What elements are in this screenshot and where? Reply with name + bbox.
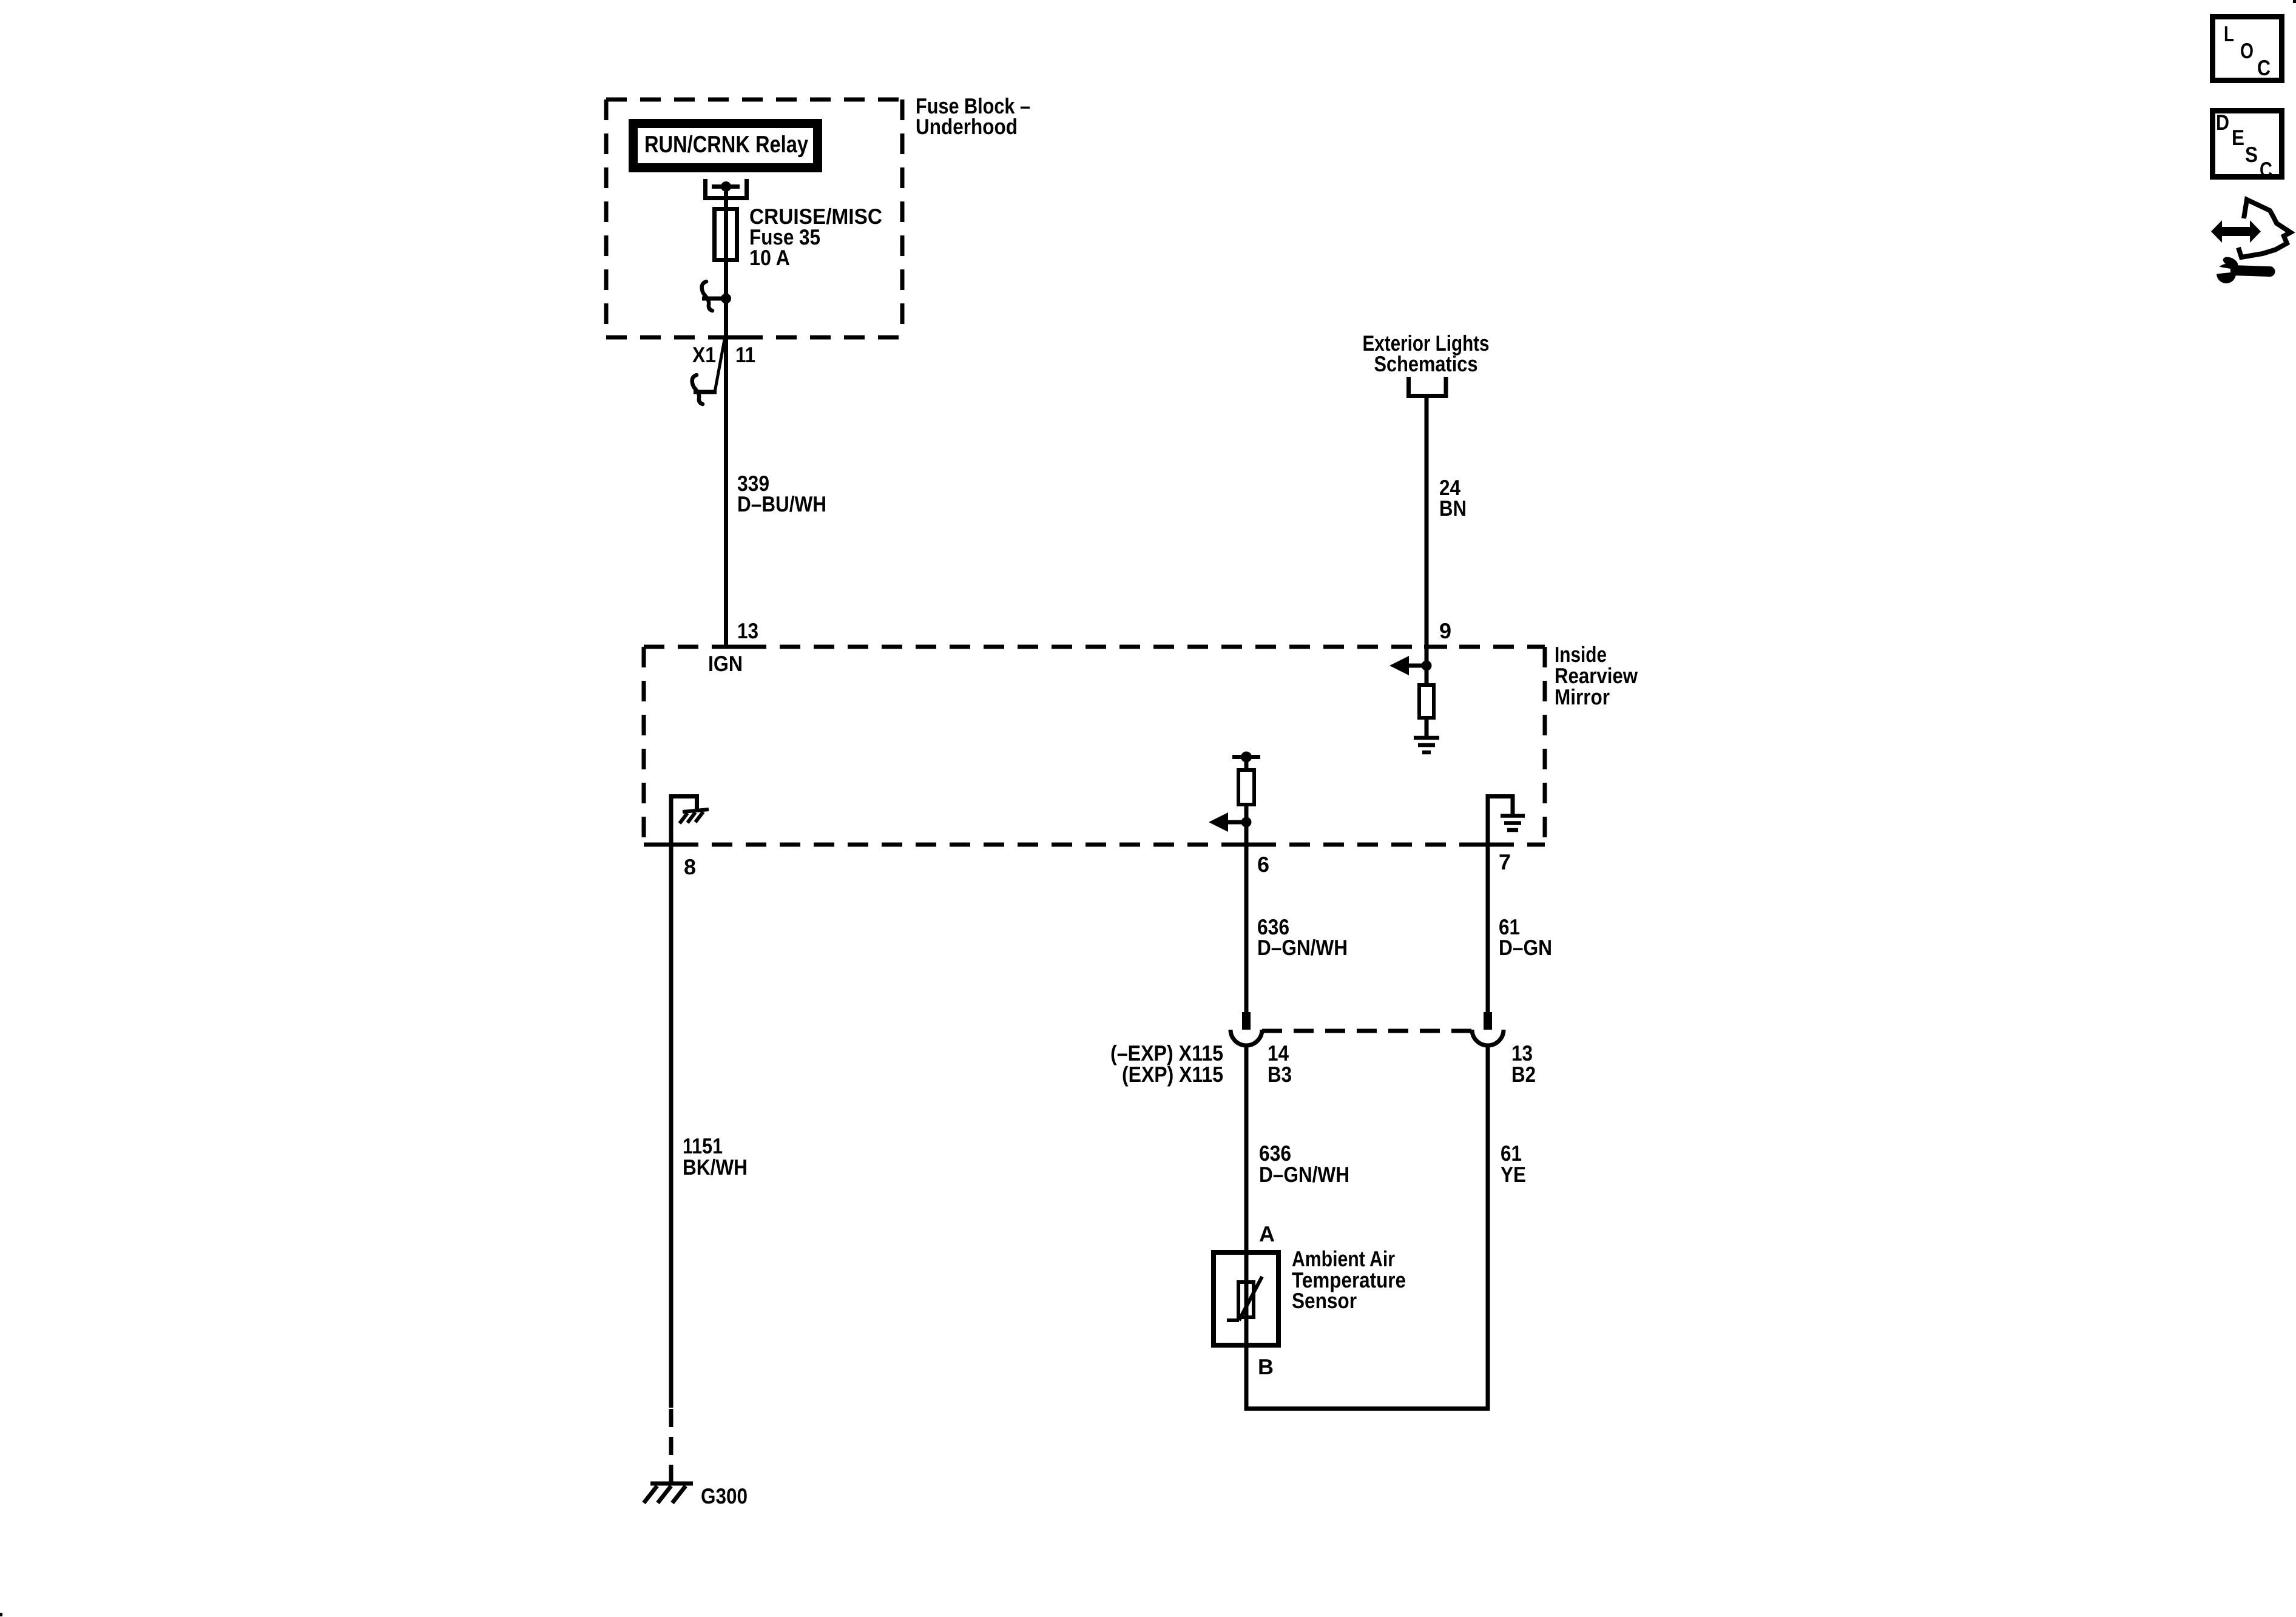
wire label 636 D-GN/WH lower (1259, 1141, 1349, 1187)
connector terminal below fuse (721, 294, 731, 304)
relay K1 RUN/CRNK Relay box (629, 119, 822, 172)
svg-text:10 A: 10 A (749, 245, 790, 270)
edge dash at mirror bottom pin7 crossing (1477, 843, 1498, 847)
mirror label (1555, 642, 1638, 709)
pin6 terminal bar (1232, 755, 1260, 759)
svg-text:S: S (2245, 142, 2258, 167)
connector X115 pin B2 female arc (1472, 1030, 1504, 1045)
wire relay to fuse (724, 187, 728, 209)
svg-text:BK/WH: BK/WH (683, 1155, 748, 1180)
edge dash at mirror top pin13 crossing (724, 645, 747, 649)
svg-text:B: B (1258, 1354, 1274, 1379)
svg-text:11: 11 (735, 342, 755, 367)
svg-text:C: C (2257, 55, 2271, 80)
svg-text:IGN: IGN (708, 651, 743, 676)
ambient air temperature sensor box (1214, 1252, 1278, 1345)
svg-text:X1: X1 (692, 342, 716, 367)
pin9 ground (1425, 718, 1429, 737)
page artifact bottom left (0, 1613, 2, 1616)
connector X115 pin B2 male (1484, 1012, 1492, 1030)
svg-text:C: C (2260, 157, 2272, 182)
inside rearview mirror dashed box (644, 647, 1545, 845)
svg-text:9: 9 (1439, 618, 1451, 643)
DESC box (2213, 111, 2282, 177)
X115 dashed line (1262, 1029, 1472, 1033)
fuse F35 CRUISE/MISC 10A (715, 209, 737, 260)
service icon connector outline (2238, 200, 2291, 257)
svg-text:O: O (2240, 38, 2254, 63)
wire label 339 D-BU/WH (737, 471, 826, 516)
connector X1 terminal hook (694, 390, 717, 394)
svg-text:RUN/CRNK Relay: RUN/CRNK Relay (644, 132, 808, 158)
thermistor rect (1238, 1282, 1254, 1317)
relay output terminal cup (706, 179, 747, 198)
svg-text:BN: BN (1439, 496, 1467, 521)
ground G300 (644, 1484, 693, 1503)
svg-text:B2: B2 (1511, 1062, 1536, 1087)
wire ext lights to mirror (1425, 396, 1429, 666)
connector X115 pin B3 female arc (1231, 1030, 1262, 1045)
wire label 636 D-GN/WH upper (1257, 914, 1348, 960)
edge dash at mirror bottom pin6 crossing (1236, 843, 1257, 847)
svg-text:Mirror: Mirror (1555, 684, 1610, 709)
svg-text:YE: YE (1501, 1162, 1526, 1187)
edge dash at mirror bottom pin8 crossing (661, 843, 681, 847)
wire label 1151 BK/WH (683, 1133, 748, 1180)
svg-text:Schematics: Schematics (1374, 351, 1478, 376)
off-page bracket (1409, 377, 1447, 396)
bottom loop wire (1246, 1045, 1488, 1409)
edge dash at fuse block bottom wire crossing (724, 336, 747, 340)
svg-text:A: A (1259, 1221, 1275, 1246)
pin6 arrow (1228, 820, 1246, 825)
wire label 24 BN (1439, 475, 1467, 521)
svg-text:L: L (2224, 21, 2234, 46)
svg-text:13: 13 (737, 618, 758, 643)
pin9 resistor (1425, 666, 1429, 685)
page artifact top right (2293, 0, 2296, 3)
terminal bar (712, 184, 740, 189)
wire label 61 D-GN upper (1499, 914, 1552, 960)
connector X1 pin 11 slash (715, 333, 726, 392)
svg-text:Underhood: Underhood (916, 114, 1018, 139)
svg-text:D–GN/WH: D–GN/WH (1257, 935, 1348, 960)
pin9 arrow (1408, 664, 1427, 668)
fuse block - underhood dashed box (606, 100, 902, 337)
wire X115 to sensor (1244, 1045, 1249, 1252)
connector X115 pin B3 male (1242, 1012, 1251, 1030)
svg-text:D–GN/WH: D–GN/WH (1259, 1162, 1349, 1187)
junction dot (721, 181, 731, 192)
fuse block label (916, 93, 1030, 139)
Exterior Lights Schematics label (1363, 331, 1490, 376)
service icon wrench (2217, 264, 2236, 283)
pin8 wire (669, 794, 674, 1408)
thermistor diagonal (1239, 1277, 1262, 1320)
edge dash at mirror top pin9 crossing (1424, 645, 1447, 649)
pin6 resistor (1244, 757, 1249, 770)
svg-text:E: E (2232, 125, 2244, 150)
wire label 61 YE (1501, 1141, 1526, 1187)
svg-text:Sensor: Sensor (1292, 1288, 1357, 1313)
wire pin6 to X115 (1244, 845, 1249, 1012)
svg-text:D: D (2216, 110, 2229, 135)
svg-text:8: 8 (684, 854, 696, 879)
svg-text:D–BU/WH: D–BU/WH (737, 491, 826, 516)
wire fuse to mirror box (724, 299, 728, 647)
svg-text:D–GN: D–GN (1499, 935, 1552, 960)
sensor label (1292, 1246, 1406, 1313)
pin6 junction dot (1244, 805, 1249, 845)
svg-text:(EXP) X115: (EXP) X115 (1122, 1062, 1223, 1087)
svg-text:B3: B3 (1268, 1062, 1292, 1087)
svg-text:6: 6 (1257, 852, 1269, 877)
pin7 wire and ground (1486, 794, 1490, 1012)
X115 labels (1110, 1041, 1223, 1087)
pin9 junction dot (1422, 661, 1432, 671)
svg-text:G300: G300 (701, 1484, 748, 1508)
wire through fuse (724, 200, 728, 299)
svg-text:7: 7 (1499, 849, 1511, 874)
service icon double arrow (2211, 220, 2261, 243)
wire through sensor (1244, 1250, 1249, 1409)
pin8 chassis ground (680, 809, 709, 823)
LOC box (2213, 17, 2282, 81)
fuse label (749, 204, 882, 270)
